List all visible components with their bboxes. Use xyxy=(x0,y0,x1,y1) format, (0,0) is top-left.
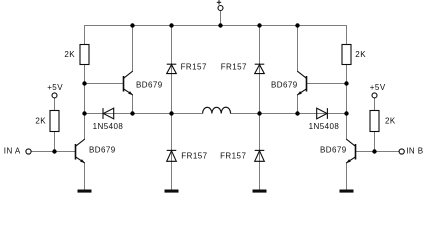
wire left FR157 column xyxy=(171,25,173,190)
transistor Q3 BD679 (bottom left) xyxy=(76,139,116,163)
svg-text:FR157: FR157 xyxy=(220,152,246,161)
wire +V terminal drop xyxy=(220,10,222,26)
wire Q1 base lead xyxy=(85,83,124,85)
terminal IN B xyxy=(399,147,423,156)
svg-text:2K: 2K xyxy=(355,50,366,59)
wire Q1 collector xyxy=(132,25,134,71)
wire Q2 collector xyxy=(297,25,299,71)
ground (Q3 emitter) xyxy=(78,190,92,193)
wire left column (rail to Q3 collector) xyxy=(84,25,86,139)
node rail-Q2 collector xyxy=(295,23,299,27)
wire Q2 base lead xyxy=(307,83,347,85)
resistor R4 2K (lower right) xyxy=(370,111,396,132)
svg-text:2K: 2K xyxy=(64,50,75,59)
wire right +5V pull-up column xyxy=(374,98,376,152)
diode D5 1N5408 (left, horizontal) xyxy=(93,108,124,131)
svg-text:IN B: IN B xyxy=(406,147,423,156)
svg-text:FR157: FR157 xyxy=(181,152,207,161)
svg-text:IN A: IN A xyxy=(4,147,21,156)
svg-text:BD679: BD679 xyxy=(320,146,347,155)
wire right column (rail to Q4 collector) xyxy=(346,25,348,139)
terminal +V (top) xyxy=(217,0,223,10)
ground (right FR157) xyxy=(253,190,267,193)
node left column output junction xyxy=(82,111,86,115)
diode D4 FR157 (lower right) xyxy=(220,150,264,161)
node rail-Q1 collector xyxy=(130,23,134,27)
svg-text:FR157: FR157 xyxy=(181,63,207,72)
svg-text:+5V: +5V xyxy=(370,83,386,92)
wire left +5V pull-up column xyxy=(54,98,56,152)
node IN A pull-up junction xyxy=(52,149,56,153)
diode D2 FR157 (upper right) xyxy=(221,63,265,74)
svg-text:BD679: BD679 xyxy=(89,146,116,155)
wire Q4 base to IN B xyxy=(356,151,400,153)
ground (Q4 emitter) xyxy=(340,190,354,193)
resistor R1 2K (top left) xyxy=(64,45,89,65)
node rail-+V xyxy=(218,23,222,27)
svg-text:BD679: BD679 xyxy=(136,80,163,89)
transistor Q1 BD679 (top left) xyxy=(124,71,163,95)
terminal +5V (left) xyxy=(47,83,63,98)
transistor Q4 BD679 (bottom right) xyxy=(320,139,356,163)
resistor R2 2K (top right) xyxy=(342,45,366,65)
wire Q1 emitter xyxy=(132,95,134,114)
node right column base junction xyxy=(344,81,348,85)
node IN B pull-up junction xyxy=(372,149,376,153)
wire top +V rail xyxy=(84,25,347,27)
node rail-D2 xyxy=(257,23,261,27)
inductor L1 (motor winding) xyxy=(203,107,231,113)
svg-text:FR157: FR157 xyxy=(221,63,247,72)
node Q1 emitter output xyxy=(130,111,134,115)
wire Q4 emitter to ground xyxy=(346,163,348,190)
svg-text:1N5408: 1N5408 xyxy=(309,122,340,131)
node Q2 emitter output xyxy=(295,111,299,115)
transistor Q2 BD679 (top right) xyxy=(271,71,307,95)
node D3-output A xyxy=(169,111,173,115)
wire Q2 emitter xyxy=(297,95,299,114)
ground (left FR157) xyxy=(165,190,179,193)
wire right FR157 column xyxy=(259,25,261,190)
diode D6 1N5408 (right, horizontal) xyxy=(309,108,340,131)
diode D1 FR157 (upper left) xyxy=(167,63,207,74)
svg-text:2K: 2K xyxy=(35,117,46,126)
wire IN A to Q3 base xyxy=(31,151,75,153)
node left column base junction xyxy=(82,81,86,85)
svg-text:1N5408: 1N5408 xyxy=(93,122,124,131)
svg-text:+5V: +5V xyxy=(47,83,63,92)
wire Q3 emitter to ground xyxy=(84,163,86,190)
wire output node B horizontal xyxy=(231,113,347,115)
node right column output junction xyxy=(344,111,348,115)
node D4-output B xyxy=(257,111,261,115)
diode D3 FR157 (lower left) xyxy=(167,150,208,161)
svg-text:2K: 2K xyxy=(385,117,396,126)
svg-text:BD679: BD679 xyxy=(271,80,298,89)
terminal IN A xyxy=(4,147,31,156)
node rail-D1 xyxy=(169,23,173,27)
resistor R3 2K (lower left) xyxy=(35,111,59,132)
terminal +5V (right) xyxy=(370,83,386,98)
wire output node A horizontal xyxy=(85,113,203,115)
